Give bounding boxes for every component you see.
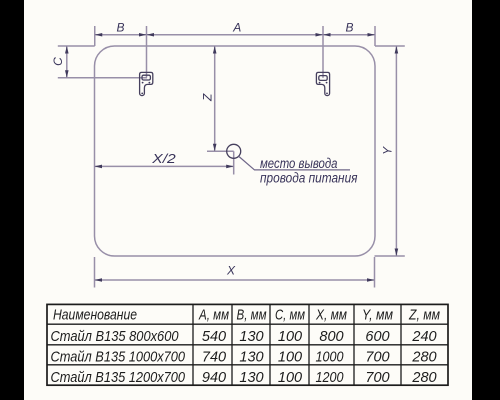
svg-text:C, мм: C, мм — [275, 307, 305, 323]
arrows at second bracket boundary — [316, 33, 324, 37]
svg-text:провода питания: провода питания — [260, 171, 358, 186]
svg-text:Стайл B135 1200x700: Стайл B135 1200x700 — [51, 370, 186, 386]
extension line C top — [58, 45, 95, 47]
arrows X — [95, 278, 103, 282]
dimension line Y — [395, 46, 397, 256]
svg-text:Стайл B135 800x600: Стайл B135 800x600 — [51, 329, 179, 345]
leader line to callout — [239, 156, 350, 170]
extension line top-right corner — [374, 26, 376, 46]
svg-text:700: 700 — [365, 350, 389, 366]
svg-text:100: 100 — [278, 370, 302, 386]
svg-text:280: 280 — [411, 350, 436, 366]
svg-text:X, мм: X, мм — [315, 307, 347, 323]
arrow B left — [95, 33, 103, 37]
svg-text:Y, мм: Y, мм — [362, 307, 393, 323]
extension line Y top — [375, 45, 405, 47]
left mounting bracket outline — [140, 72, 153, 95]
arrows Y — [395, 46, 399, 54]
landing line at circle center — [207, 150, 234, 152]
svg-text:800: 800 — [319, 329, 343, 345]
dimension line Z — [214, 46, 216, 151]
arrows Z — [213, 46, 217, 54]
svg-text:130: 130 — [239, 329, 263, 345]
left bracket slot — [142, 75, 150, 80]
svg-text:A: A — [232, 21, 241, 35]
svg-text:B, мм: B, мм — [237, 307, 267, 323]
svg-text:130: 130 — [239, 350, 263, 366]
extension line X left — [94, 257, 96, 288]
right bracket slot — [319, 76, 327, 81]
panel outline rounded rectangle — [95, 46, 376, 256]
arrows C — [65, 46, 69, 54]
svg-text:1000: 1000 — [316, 350, 344, 366]
svg-text:место вывода: место вывода — [260, 156, 338, 171]
dimension line X — [95, 279, 375, 281]
svg-text:Z: Z — [201, 93, 215, 102]
svg-text:B: B — [116, 21, 124, 35]
svg-text:540: 540 — [202, 329, 226, 345]
extension line Y bottom — [375, 255, 405, 257]
svg-text:B: B — [345, 21, 353, 35]
left bracket holes — [142, 82, 144, 84]
right black pillar bar — [472, 0, 500, 400]
svg-text:100: 100 — [278, 329, 302, 345]
svg-text:240: 240 — [411, 329, 436, 345]
cord outlet circle — [227, 144, 241, 158]
svg-text:940: 940 — [202, 370, 226, 386]
svg-text:Стайл B135 1000x700: Стайл B135 1000x700 — [51, 350, 186, 366]
arrow B right — [368, 33, 376, 37]
svg-text:280: 280 — [411, 370, 436, 386]
dimension line X/2 — [95, 165, 234, 167]
dimension line C — [66, 46, 68, 78]
svg-text:Наименование: Наименование — [53, 307, 137, 323]
arrows at first bracket boundary — [139, 33, 147, 37]
extension line C bottom to bracket — [58, 77, 147, 79]
table grid — [47, 304, 448, 385]
extension line top-left corner — [94, 26, 96, 46]
extension line right bracket axis — [322, 26, 324, 78]
extension line left bracket axis — [146, 26, 148, 78]
arrows X/2 — [95, 165, 103, 169]
svg-text:X/2: X/2 — [151, 151, 177, 166]
extension line below circle — [233, 151, 235, 174]
svg-text:740: 740 — [202, 350, 226, 366]
dimension line B A B — [95, 34, 375, 36]
svg-text:Z, мм: Z, мм — [408, 307, 440, 323]
svg-text:Y: Y — [381, 146, 395, 155]
svg-text:1200: 1200 — [316, 370, 344, 386]
right mounting bracket outline — [316, 72, 329, 95]
svg-text:130: 130 — [239, 370, 263, 386]
svg-text:700: 700 — [365, 370, 389, 386]
svg-text:600: 600 — [365, 329, 389, 345]
right bracket holes — [319, 82, 321, 84]
left black pillar bar — [0, 0, 24, 400]
svg-text:A, мм: A, мм — [198, 307, 229, 323]
svg-text:X: X — [226, 264, 236, 278]
extension line X right — [374, 257, 376, 288]
svg-text:100: 100 — [278, 350, 302, 366]
svg-text:C: C — [51, 57, 65, 66]
